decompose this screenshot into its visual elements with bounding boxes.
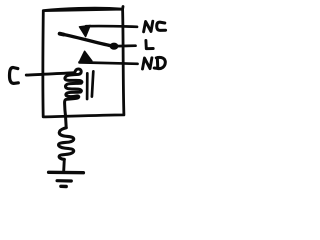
lever pivot blob at left tip bbox=[60, 32, 64, 37]
ground bar 1 (long) bbox=[49, 171, 84, 175]
ground bar 3 (short) bbox=[61, 185, 66, 189]
wire from resistor to ground bbox=[62, 159, 66, 171]
label ND : N bbox=[143, 58, 152, 69]
relay coil winding bbox=[65, 69, 82, 128]
label L bbox=[146, 40, 153, 48]
ND line to label bbox=[80, 62, 138, 63]
label NC : C bbox=[157, 22, 166, 30]
coil core line 1 bbox=[86, 73, 89, 99]
ground bar 2 (medium) bbox=[57, 179, 71, 183]
L line to label bbox=[117, 44, 136, 47]
switch lever (armature) bbox=[60, 34, 112, 46]
ND contact triangle bbox=[79, 51, 92, 62]
NC contact triangle bbox=[79, 25, 90, 36]
NC line to label bbox=[86, 25, 137, 28]
common contact dot (L terminal) bbox=[110, 43, 119, 50]
label C (coil terminal) bbox=[9, 68, 18, 84]
label NC : N bbox=[144, 21, 153, 32]
label ND : D bbox=[154, 57, 165, 68]
relay box outline bbox=[43, 7, 124, 117]
wire from C terminal into coil bbox=[26, 73, 74, 75]
resistor squiggle bbox=[59, 128, 74, 160]
coil core line 2 bbox=[92, 71, 93, 96]
